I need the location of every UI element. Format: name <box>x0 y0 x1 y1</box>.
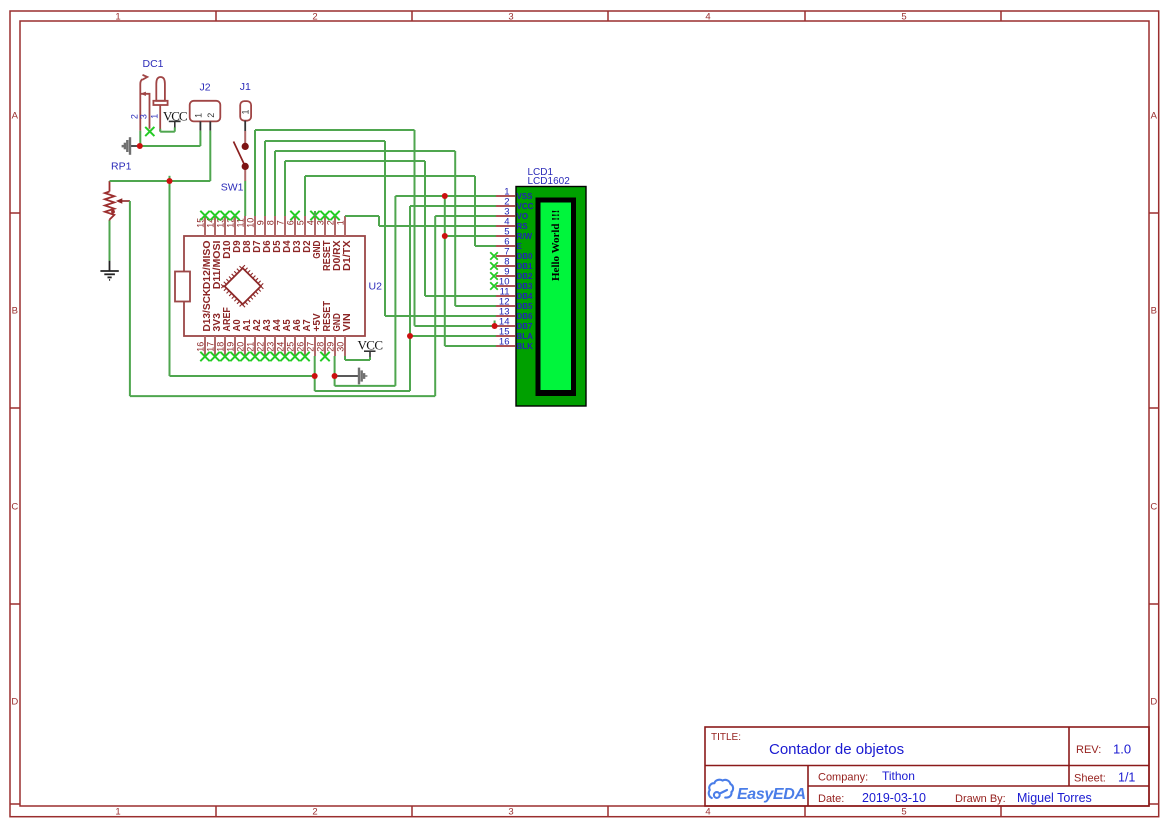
no-connect X marks on U2 bottom pins 16-26,28 <box>200 352 209 361</box>
svg-text:DB4: DB4 <box>517 292 534 301</box>
svg-text:26: 26 <box>295 342 305 352</box>
junction on VCC rail <box>167 178 173 184</box>
svg-text:DB6: DB6 <box>517 312 534 321</box>
potentiometer RP1 <box>105 181 114 221</box>
svg-text:VO: VO <box>517 212 529 221</box>
ground (arrow style) near DC1/J2 <box>130 145 140 147</box>
svg-text:5: 5 <box>901 12 906 23</box>
svg-text:29: 29 <box>325 342 335 352</box>
LCD pin stubs 1-16 <box>496 196 515 346</box>
svg-text:REV:: REV: <box>1076 744 1101 756</box>
svg-text:8: 8 <box>265 220 275 225</box>
svg-text:TITLE:: TITLE: <box>711 732 741 743</box>
wire VSS to R/W to BLK riser <box>444 196 446 346</box>
EasyEDA logo <box>709 780 733 798</box>
svg-text:D: D <box>1150 697 1157 708</box>
svg-text:1: 1 <box>335 220 345 225</box>
svg-text:C: C <box>1150 502 1157 513</box>
svg-text:1: 1 <box>115 807 120 818</box>
J2 pin 2 <box>209 121 211 130</box>
svg-text:B: B <box>12 306 18 317</box>
svg-text:R/W: R/W <box>517 232 533 241</box>
svg-text:1: 1 <box>194 113 204 118</box>
svg-text:C: C <box>11 502 18 513</box>
wire to LCD VSS <box>395 195 496 197</box>
svg-text:E: E <box>517 242 523 251</box>
svg-text:10: 10 <box>245 218 255 228</box>
wire U2 D6 to LCD DB6 <box>264 141 266 216</box>
svg-text:RS: RS <box>517 222 529 231</box>
svg-text:RP1: RP1 <box>111 160 132 172</box>
svg-text:BLA: BLA <box>517 332 534 341</box>
wire SW1 to U2 D8 <box>244 181 246 216</box>
connector J1 body <box>240 101 251 121</box>
svg-text:DB2: DB2 <box>517 272 534 281</box>
RP1 wiper arrow <box>121 200 130 202</box>
svg-text:3: 3 <box>508 807 513 818</box>
wire GND pin 29 <box>334 356 336 386</box>
LCD LCD1 body <box>516 187 586 407</box>
svg-text:DC1: DC1 <box>143 58 164 70</box>
junction at ground node DC1/J2 <box>137 143 143 149</box>
wire stub on U2 pin 4 <box>314 211 316 216</box>
junction at VSS <box>442 193 448 199</box>
svg-text:DB0: DB0 <box>517 252 534 261</box>
svg-text:5: 5 <box>901 807 906 818</box>
svg-text:DB3: DB3 <box>517 282 534 291</box>
U2 qfp chip glyph <box>222 266 263 307</box>
junction at GND pin <box>332 373 338 379</box>
svg-text:2: 2 <box>312 807 317 818</box>
svg-text:Tithon: Tithon <box>882 769 915 783</box>
wire VCC rail J2.2/RP1 <box>110 180 211 182</box>
wire to LCD BLA <box>410 335 496 337</box>
wire U2 D1/TX to LCD RS <box>345 215 379 217</box>
svg-text:3: 3 <box>315 220 325 225</box>
wire U2 D5 to LCD DB5 <box>274 151 276 216</box>
wire GND run to VSS <box>335 385 396 387</box>
svg-text:Sheet:: Sheet: <box>1074 773 1106 785</box>
connector J2 body <box>190 101 221 122</box>
wire stub above rail junction <box>169 176 171 181</box>
svg-text:DB5: DB5 <box>517 302 534 311</box>
svg-text:Miguel Torres: Miguel Torres <box>1017 791 1092 805</box>
no-connect X on DC1 pin 3 <box>145 127 154 136</box>
svg-text:VCC: VCC <box>517 202 534 211</box>
wire U2 D7 to LCD DB7 <box>254 130 256 216</box>
svg-text:Date:: Date: <box>818 793 844 805</box>
svg-text:22: 22 <box>255 342 265 352</box>
no-connect X marks on U2 top pins 15,14,13,12,6,4,3,2 <box>200 211 209 220</box>
wire RP1 bottom to ground <box>109 221 111 261</box>
no-connect X marks on LCD DB0-DB3 <box>490 252 498 260</box>
ground (earth style) below RP1 <box>100 261 118 280</box>
svg-text:25: 25 <box>285 342 295 352</box>
wire DC1 pin 1 to VCC flag <box>159 129 161 132</box>
svg-text:2: 2 <box>325 220 335 225</box>
svg-text:5: 5 <box>295 220 305 225</box>
junction at +5V <box>312 373 318 379</box>
wire to LCD R/W <box>445 235 496 237</box>
switch SW1 <box>244 131 246 181</box>
svg-text:27: 27 <box>305 342 315 352</box>
J2 pin 1 <box>199 121 201 130</box>
wire ground node to J2 pin 1 <box>140 145 200 147</box>
wire to LCD VO <box>435 215 496 217</box>
junction at BLA <box>407 333 413 339</box>
wire stub above DB7 <box>494 321 496 327</box>
svg-text:2: 2 <box>312 12 317 23</box>
wire RP1 wiper to VO <box>129 201 131 396</box>
svg-text:VCC: VCC <box>358 338 384 353</box>
svg-text:2: 2 <box>206 113 216 118</box>
svg-text:20: 20 <box>235 342 245 352</box>
svg-text:4: 4 <box>305 220 315 225</box>
svg-text:Drawn By:: Drawn By: <box>955 793 1006 805</box>
junction at R/W <box>442 233 448 239</box>
svg-text:4: 4 <box>705 12 710 23</box>
wire DC1 sleeve to ground node <box>139 131 141 146</box>
svg-text:28: 28 <box>315 342 325 352</box>
svg-text:SW1: SW1 <box>221 182 244 194</box>
svg-text:VSS: VSS <box>517 192 534 201</box>
svg-text:19: 19 <box>225 342 235 352</box>
junction at DB7 <box>492 323 498 329</box>
J1 pin 1 <box>244 121 246 131</box>
U2 usb connector <box>175 272 190 302</box>
svg-text:B: B <box>1151 306 1157 317</box>
svg-text:1/1: 1/1 <box>1118 771 1135 785</box>
svg-text:17: 17 <box>205 342 215 352</box>
svg-text:U2: U2 <box>369 281 383 293</box>
svg-text:LCD1602: LCD1602 <box>528 176 571 187</box>
svg-text:3: 3 <box>138 114 148 119</box>
svg-text:16: 16 <box>195 342 205 352</box>
svg-text:J1: J1 <box>240 81 251 93</box>
svg-text:30: 30 <box>335 342 345 352</box>
wire +5V pin 27 <box>314 356 316 391</box>
wire to LCD VCC <box>410 205 496 207</box>
svg-text:1: 1 <box>115 12 120 23</box>
svg-text:3: 3 <box>508 12 513 23</box>
wire VIN to VCC flag <box>344 356 346 360</box>
svg-text:J2: J2 <box>200 82 211 94</box>
svg-text:Company:: Company: <box>818 772 868 784</box>
LCD bezel <box>536 198 577 397</box>
LCD screen <box>541 203 572 391</box>
svg-text:1: 1 <box>150 114 160 119</box>
svg-text:A: A <box>12 111 19 122</box>
svg-text:VIN: VIN <box>341 313 353 331</box>
DC jack DC1 symbol <box>140 75 167 132</box>
svg-text:6: 6 <box>285 220 295 225</box>
wire to LCD BLK <box>445 345 496 347</box>
svg-text:EasyEDA: EasyEDA <box>737 786 806 803</box>
svg-text:18: 18 <box>215 342 225 352</box>
svg-text:2019-03-10: 2019-03-10 <box>862 791 926 805</box>
svg-text:Hello World !!!: Hello World !!! <box>550 210 562 281</box>
svg-text:DB1: DB1 <box>517 262 534 271</box>
ground (arrow style) near U2 GND pin <box>335 375 359 377</box>
svg-text:Contador de objetos: Contador de objetos <box>769 741 904 758</box>
svg-text:4: 4 <box>705 807 710 818</box>
svg-text:9: 9 <box>255 220 265 225</box>
MCU U2 body <box>184 236 365 336</box>
svg-text:23: 23 <box>265 342 275 352</box>
svg-text:D: D <box>11 697 18 708</box>
svg-text:1: 1 <box>241 109 251 114</box>
svg-text:1.0: 1.0 <box>1113 742 1131 757</box>
svg-text:7: 7 <box>275 220 285 225</box>
wire VCC rail down to +5V <box>169 181 171 376</box>
wire +5V to BLA/VCC riser <box>315 390 410 392</box>
svg-text:BLK: BLK <box>517 342 534 351</box>
U2 top pin stubs <box>205 216 345 236</box>
wire U2 D2 to LCD E <box>304 176 306 216</box>
wire U2 D4 to LCD DB4 <box>284 161 286 216</box>
svg-text:24: 24 <box>275 342 285 352</box>
U2 bottom pin stubs <box>205 336 345 356</box>
svg-text:DB7: DB7 <box>517 322 534 331</box>
svg-text:D1/TX: D1/TX <box>341 241 353 272</box>
svg-text:11: 11 <box>235 218 245 227</box>
svg-text:21: 21 <box>245 342 255 352</box>
svg-text:A: A <box>1151 111 1158 122</box>
svg-text:16: 16 <box>499 337 510 348</box>
